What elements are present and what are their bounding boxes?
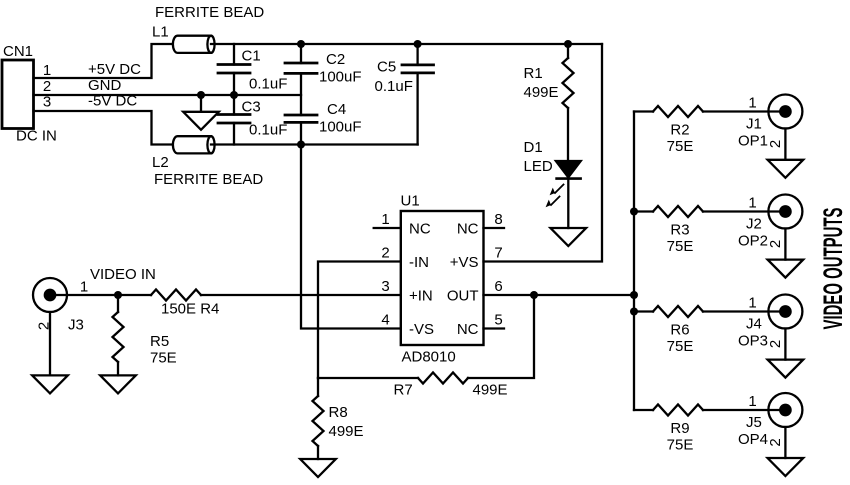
svg-text:J5: J5 bbox=[746, 414, 762, 431]
svg-text:R3: R3 bbox=[670, 222, 689, 239]
svg-text:75E: 75E bbox=[667, 437, 694, 454]
capacitor C1 bbox=[218, 44, 250, 95]
svg-text:150E R4: 150E R4 bbox=[161, 301, 219, 318]
svg-text:1: 1 bbox=[381, 211, 389, 228]
svg-text:FERRITE BEAD: FERRITE BEAD bbox=[154, 171, 263, 188]
svg-text:R6: R6 bbox=[670, 322, 689, 339]
svg-text:100uF: 100uF bbox=[319, 69, 362, 86]
svg-text:NC: NC bbox=[457, 321, 479, 338]
wire -5V rail bbox=[211, 143, 418, 145]
svg-text:C5: C5 bbox=[377, 59, 396, 76]
svg-text:1: 1 bbox=[748, 95, 756, 112]
wire CN1 pin3 -5V DC bbox=[34, 111, 173, 145]
connector J5 OP4 bbox=[768, 393, 802, 427]
svg-text:C3: C3 bbox=[242, 99, 261, 116]
svg-text:U1: U1 bbox=[401, 193, 420, 210]
svg-text:-IN: -IN bbox=[409, 254, 429, 271]
connector J2 OP2 bbox=[768, 195, 802, 229]
inductor L2 ferrite bead bbox=[173, 136, 215, 153]
wire +5V rail bbox=[211, 43, 602, 45]
junction node C2 rail tap bbox=[297, 40, 305, 48]
svg-text:499E: 499E bbox=[524, 84, 559, 101]
svg-text:1: 1 bbox=[43, 62, 51, 79]
junction node feedback OUT tap bbox=[530, 291, 538, 299]
svg-text:OP4: OP4 bbox=[738, 431, 768, 448]
svg-text:R2: R2 bbox=[670, 122, 689, 139]
junction node C5 rail tap bbox=[414, 40, 422, 48]
svg-text:VIDEO OUTPUTS: VIDEO OUTPUTS bbox=[819, 207, 849, 329]
ground below J5 bbox=[768, 458, 804, 476]
svg-text:+VS: +VS bbox=[450, 254, 479, 271]
resistor R8 499E bbox=[313, 378, 324, 459]
svg-text:2: 2 bbox=[43, 78, 51, 95]
connector J1 OP1 bbox=[768, 95, 802, 129]
connector J3 VIDEO IN bbox=[33, 278, 151, 312]
wire CN1 pin2 GND bbox=[34, 94, 302, 96]
svg-text:C4: C4 bbox=[327, 101, 346, 118]
wire U1 pin6 OUT to output bus bbox=[484, 294, 635, 296]
svg-text:C2: C2 bbox=[326, 51, 345, 68]
svg-text:7: 7 bbox=[494, 245, 502, 262]
resistor R3 75E bbox=[634, 206, 785, 217]
svg-text:GND: GND bbox=[88, 77, 122, 94]
inductor L1 ferrite bead bbox=[173, 36, 215, 53]
svg-text:1: 1 bbox=[748, 295, 756, 312]
svg-text:75E: 75E bbox=[667, 138, 694, 155]
svg-text:OUT: OUT bbox=[447, 288, 479, 305]
svg-text:J4: J4 bbox=[746, 316, 762, 333]
ground below J2 bbox=[768, 260, 804, 278]
ground below D1 bbox=[551, 228, 587, 246]
svg-text:J1: J1 bbox=[746, 116, 762, 133]
svg-text:R7: R7 bbox=[394, 382, 413, 399]
svg-text:R5: R5 bbox=[150, 333, 169, 350]
svg-text:AD8010: AD8010 bbox=[402, 349, 456, 366]
svg-text:2: 2 bbox=[36, 322, 53, 330]
svg-text:C1: C1 bbox=[242, 48, 261, 65]
svg-text:NC: NC bbox=[457, 221, 479, 238]
svg-text:0.1uF: 0.1uF bbox=[375, 78, 413, 95]
wire -5V to U1 -VS pin4 bbox=[301, 145, 401, 329]
svg-text:L2: L2 bbox=[152, 154, 169, 171]
ground below J1 bbox=[768, 160, 804, 178]
svg-text:3: 3 bbox=[43, 94, 51, 111]
junction node C4 -5V tap bbox=[297, 141, 305, 149]
svg-text:2: 2 bbox=[381, 245, 389, 262]
svg-text:NC: NC bbox=[409, 221, 431, 238]
svg-text:1: 1 bbox=[748, 393, 756, 410]
svg-text:R9: R9 bbox=[670, 420, 689, 437]
svg-text:100uF: 100uF bbox=[319, 119, 362, 136]
svg-text:+5V DC: +5V DC bbox=[88, 61, 141, 78]
resistor R9 75E bbox=[634, 405, 785, 416]
svg-text:OP1: OP1 bbox=[738, 133, 768, 150]
svg-text:DC IN: DC IN bbox=[16, 128, 57, 145]
svg-text:+IN: +IN bbox=[409, 288, 433, 305]
resistor R1 bbox=[563, 44, 574, 160]
junction node C1-GND bbox=[230, 91, 238, 99]
svg-text:R8: R8 bbox=[329, 404, 348, 421]
svg-text:2: 2 bbox=[767, 240, 784, 248]
ground below R8 bbox=[300, 459, 336, 477]
svg-text:VIDEO IN: VIDEO IN bbox=[90, 266, 156, 283]
junction node bus R3 bbox=[630, 208, 638, 216]
svg-text:-5V DC: -5V DC bbox=[88, 93, 137, 110]
capacitor C5 bbox=[402, 44, 434, 145]
svg-text:LED: LED bbox=[524, 158, 553, 175]
svg-text:2: 2 bbox=[767, 340, 784, 348]
wire U1 pin8 NC stub bbox=[484, 227, 505, 229]
wire U1 pin5 NC stub bbox=[484, 327, 505, 329]
svg-text:L1: L1 bbox=[152, 24, 169, 41]
svg-text:J2: J2 bbox=[746, 216, 762, 233]
svg-text:8: 8 bbox=[494, 211, 502, 228]
svg-text:6: 6 bbox=[494, 278, 502, 295]
resistor R2 75E bbox=[634, 106, 785, 117]
svg-text:4: 4 bbox=[381, 312, 389, 329]
wire U1 pin3 +IN row bbox=[201, 294, 401, 296]
ground below R5 bbox=[100, 375, 136, 393]
wire J2 pin2 to ground bbox=[784, 229, 786, 260]
svg-text:0.1uF: 0.1uF bbox=[249, 76, 287, 93]
resistor R6 75E bbox=[634, 306, 785, 317]
ground below J4 bbox=[768, 360, 804, 378]
svg-text:1: 1 bbox=[80, 279, 88, 296]
connector CN1 box bbox=[2, 60, 34, 129]
svg-text:75E: 75E bbox=[150, 350, 177, 367]
svg-text:75E: 75E bbox=[667, 238, 694, 255]
svg-text:-VS: -VS bbox=[409, 321, 434, 338]
ground on GND rail bbox=[183, 95, 219, 130]
svg-text:D1: D1 bbox=[524, 139, 543, 156]
LED D1 bbox=[546, 161, 581, 228]
ground below J3 bbox=[32, 375, 68, 393]
svg-text:499E: 499E bbox=[329, 423, 364, 440]
svg-text:75E: 75E bbox=[667, 338, 694, 355]
capacitor C4 bbox=[285, 115, 317, 145]
svg-text:OP3: OP3 bbox=[738, 333, 768, 350]
resistor R4 150E bbox=[151, 290, 201, 301]
wire U1 pin2 -IN to feedback node bbox=[318, 262, 401, 379]
svg-text:5: 5 bbox=[494, 312, 502, 329]
svg-text:2: 2 bbox=[767, 438, 784, 446]
junction node GND-ground bbox=[197, 91, 205, 99]
svg-text:3: 3 bbox=[381, 278, 389, 295]
junction node bus R6 bbox=[630, 308, 638, 316]
op-amp U1 AD8010 box bbox=[401, 211, 484, 345]
svg-text:OP2: OP2 bbox=[738, 233, 768, 250]
resistor R5 75E bbox=[113, 295, 124, 375]
junction node R1 rail tap bbox=[564, 40, 572, 48]
wire J4 pin2 to ground bbox=[784, 329, 786, 360]
capacitor C2 bbox=[285, 44, 317, 115]
junction node OUT-bus bbox=[630, 291, 638, 299]
wire J5 pin2 to ground bbox=[784, 427, 786, 458]
svg-text:1: 1 bbox=[748, 195, 756, 212]
svg-text:J3: J3 bbox=[68, 317, 84, 334]
capacitor C3 bbox=[218, 95, 250, 145]
svg-text:R1: R1 bbox=[524, 65, 543, 82]
wire +5V rail to U1 +VS pin7 bbox=[484, 44, 603, 262]
wire J3 pin2 to ground bbox=[49, 312, 51, 375]
wire output bus bbox=[633, 112, 635, 411]
junction node R5 input tap bbox=[114, 291, 122, 299]
svg-text:CN1: CN1 bbox=[3, 43, 33, 60]
wire CN1 pin1 +5V DC bbox=[34, 44, 173, 78]
wire U1 pin1 NC stub bbox=[374, 227, 401, 229]
wire J1 pin2 to ground bbox=[784, 129, 786, 160]
connector J4 OP3 bbox=[768, 295, 802, 329]
resistor R7 499E feedback bbox=[318, 295, 534, 384]
svg-text:FERRITE BEAD: FERRITE BEAD bbox=[155, 4, 264, 21]
svg-text:2: 2 bbox=[767, 140, 784, 148]
svg-text:0.1uF: 0.1uF bbox=[249, 122, 287, 139]
svg-text:499E: 499E bbox=[473, 382, 508, 399]
